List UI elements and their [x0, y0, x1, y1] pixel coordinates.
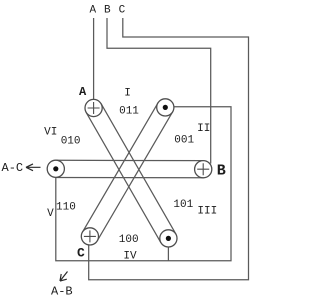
svg-text:IV: IV — [123, 251, 137, 263]
svg-text:C: C — [119, 5, 126, 17]
svg-text:II: II — [197, 123, 210, 135]
svg-text:III: III — [197, 206, 217, 218]
svg-text:100: 100 — [119, 234, 139, 246]
svg-text:010: 010 — [61, 135, 81, 147]
svg-text:110: 110 — [56, 201, 76, 213]
svg-text:A-C: A-C — [2, 161, 24, 175]
svg-text:A: A — [90, 5, 97, 17]
svg-text:V: V — [47, 208, 54, 220]
svg-text:011: 011 — [119, 105, 139, 117]
svg-text:001: 001 — [174, 135, 194, 147]
svg-text:A: A — [79, 85, 87, 99]
svg-text:I: I — [124, 88, 131, 100]
svg-text:A-B: A-B — [51, 285, 73, 299]
svg-text:VI: VI — [44, 126, 57, 138]
svg-text:B: B — [104, 5, 111, 17]
svg-text:101: 101 — [173, 199, 193, 211]
svg-text:B: B — [217, 162, 226, 179]
svg-text:C: C — [77, 245, 85, 260]
